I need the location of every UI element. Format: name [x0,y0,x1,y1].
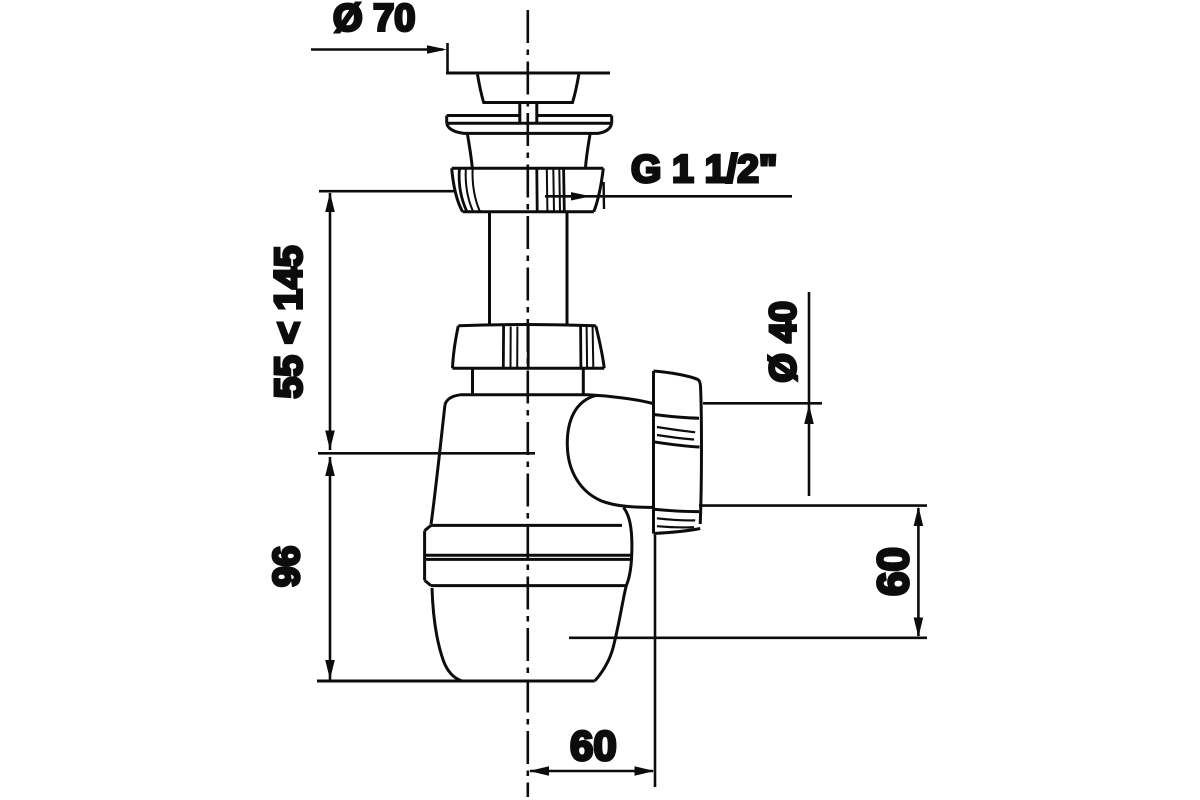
dim Ø40 arrowhead [804,405,814,425]
svg-text:G 1 1/2": G 1 1/2" [631,148,777,191]
dim 60 bottom right extension line [654,535,657,787]
svg-text:60: 60 [869,547,918,596]
collar band left edge [423,531,426,581]
dim 55-145 bottom arrowhead [325,431,335,451]
svg-text:55 < 145: 55 < 145 [268,246,311,399]
elbow lower curve into bowl right side [595,508,632,682]
outlet nut lower band line 1 [654,509,700,511]
bowl bottom and dim 96 extension line [317,680,595,683]
outlet nut lower band thin line 2 [657,526,694,527]
nut 1 right side [594,168,604,211]
nut 1 left side [452,168,463,211]
dim 60 right top extension line [699,504,927,507]
svg-text:96: 96 [266,546,307,587]
collar band groove lines [425,554,632,557]
dim 60 bottom left arrowhead [529,766,549,776]
nut 1 knurl left lines [459,169,467,212]
dim 55-145 line [329,193,332,450]
flange second line [447,122,612,125]
collar band left chamfer top [425,525,431,530]
mid reference line [318,452,535,455]
dim 60 right bottom arrowhead [914,618,924,638]
dim Ø70 extension tick [446,43,449,74]
nut 2 top edge [458,325,596,326]
elbow outline [567,395,652,507]
collar band top edge [431,524,622,527]
outlet nut upper band line 2 [654,442,700,447]
outlet nut upper band thin line 2 [657,435,694,440]
flange skirt [447,123,612,133]
nut 2 left side [453,326,459,369]
nut 1 knurl middle lines [535,169,538,212]
nut 1 right facet line [602,182,605,209]
dim 55-145 top arrowhead [325,193,335,213]
flange top line [447,114,612,117]
svg-text:Ø 40: Ø 40 [762,301,804,382]
collar band left chamfer bottom [425,580,431,585]
outlet nut upper band thin line 1 [657,427,695,432]
outlet nut top edge [654,371,701,387]
dim 96 line [329,457,332,680]
flange sides [447,116,612,124]
dim 96 bottom arrowhead [325,660,335,680]
nut 1 bottom edge [463,210,594,213]
dim 60 right top arrowhead [914,507,924,527]
centerline vertical axis [526,10,529,797]
thread leader line G 1 1/2 [545,195,792,198]
thread leader arrowhead [571,192,591,200]
outlet nut right edge [700,387,701,525]
body top-left corner [445,395,460,405]
bell right side [586,135,591,168]
outlet nut lower band thin line 1 [657,518,695,520]
sink top line [446,72,610,75]
dim 60 right line [917,508,920,636]
dim 60 bottom right arrowhead [635,766,655,776]
nut 2 knurl lines [502,326,505,368]
nut 2 right side [596,326,604,369]
nut 2 bottom edge [453,367,605,370]
dim 60 bottom line [530,770,653,773]
outlet nut bottom edge [654,529,701,534]
nut 1 top edge [452,167,604,170]
dim Ø70 arrowhead [427,45,447,53]
tailpipe walls [490,212,568,325]
svg-text:Ø 70: Ø 70 [333,0,415,40]
dim 55-145 top extension line [319,190,455,193]
dim Ø40 extension line [703,402,822,405]
dim 96 top arrowhead [325,457,335,477]
strainer cup [478,75,579,103]
dim Ø70 leader line [311,48,443,51]
dim Ø40 line upper [808,292,811,496]
collar band bottom edge [431,584,626,587]
strainer stem [520,103,537,124]
body left edge [431,405,445,525]
svg-text:60: 60 [570,722,617,769]
bell left side [468,135,473,168]
bowl left side [432,588,462,681]
outlet nut upper band line 1 [654,415,700,419]
dim 60 right bottom extension line [569,636,927,639]
inlet neck walls [473,368,584,394]
outlet nut left edge [652,371,655,534]
body top edge and elbow top [460,395,653,404]
